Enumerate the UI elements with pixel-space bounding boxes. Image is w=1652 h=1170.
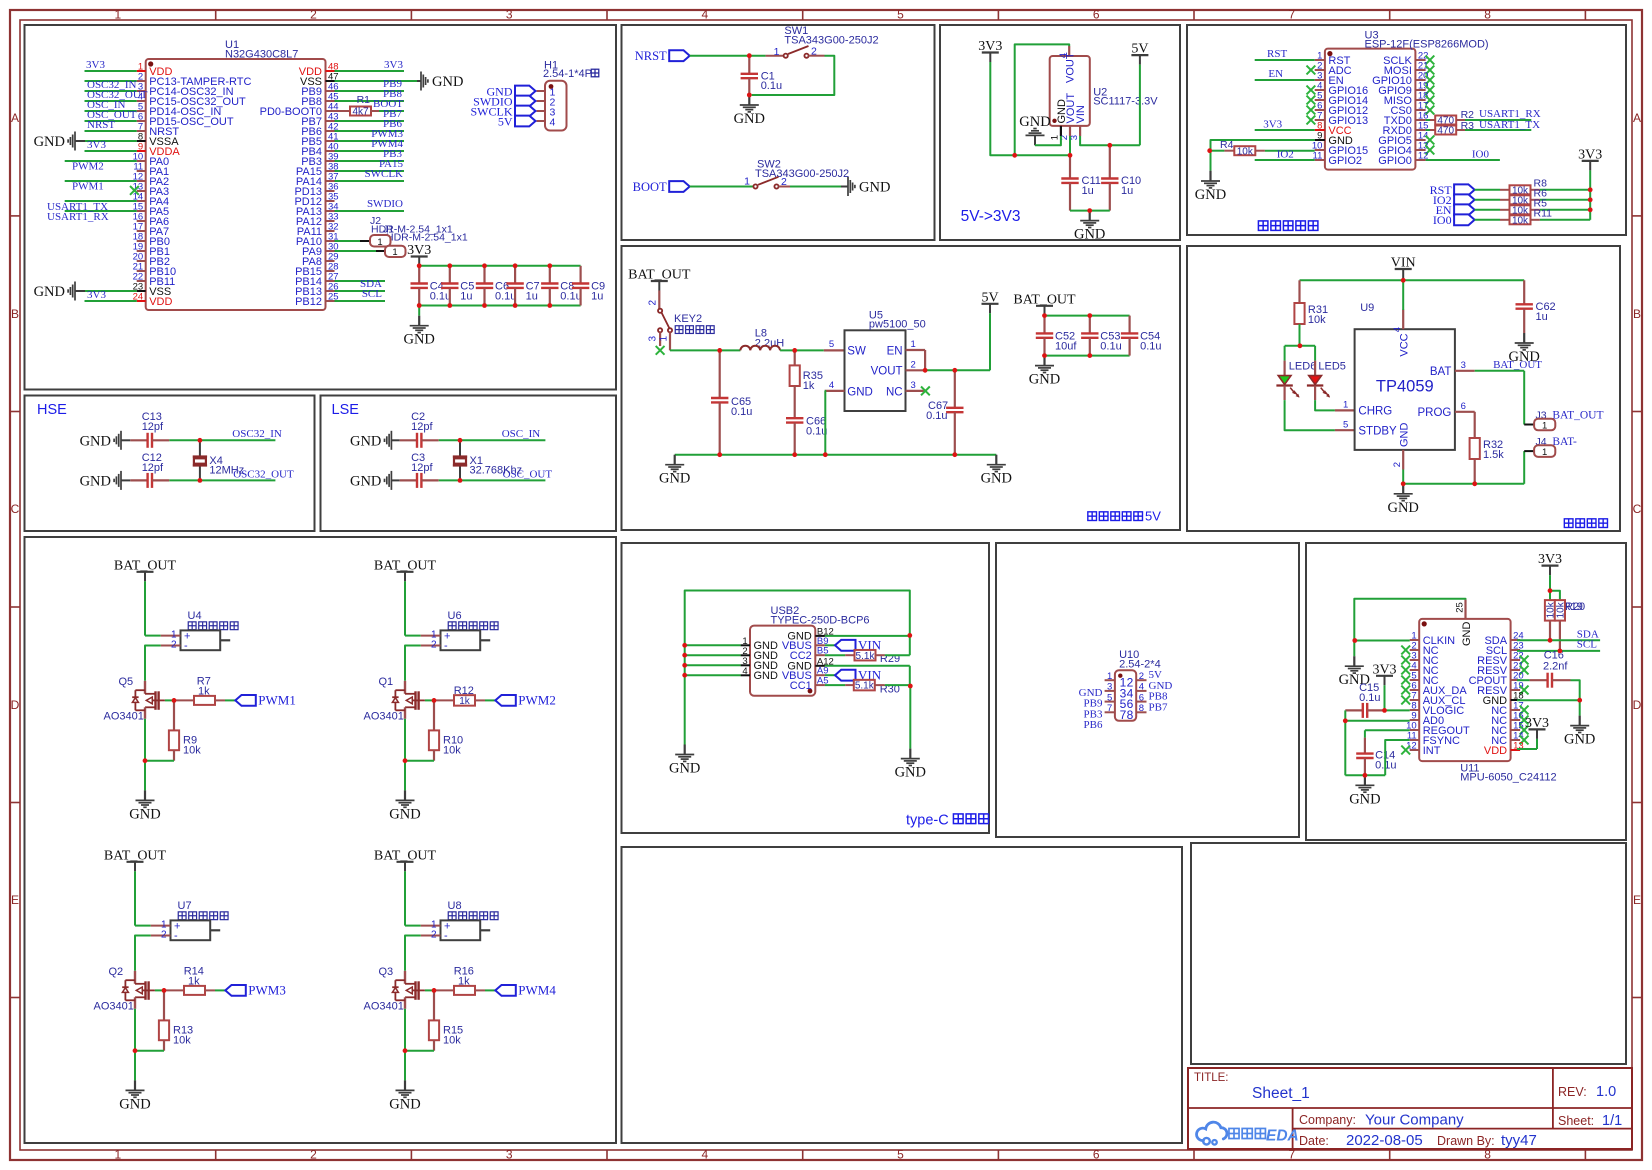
section label HSE — [37, 402, 67, 418]
svg-text:0.1u: 0.1u — [495, 291, 516, 303]
svg-text:0.1u: 0.1u — [430, 291, 451, 303]
svg-text:3: 3 — [911, 380, 916, 391]
svg-text:10uf: 10uf — [1055, 340, 1077, 352]
title block — [1188, 1068, 1632, 1149]
wire SCL — [1517, 650, 1600, 652]
junction VIN — [1401, 278, 1406, 283]
svg-text:GND: GND — [432, 74, 463, 90]
junction gate Q5 — [172, 698, 177, 703]
port flag 5V (H1 pin 4) — [498, 114, 536, 128]
svg-text:4: 4 — [1392, 327, 1403, 332]
ground (MPU right) — [1564, 700, 1595, 747]
wire KEY2 to L8 — [670, 349, 740, 351]
capacitor C6 0.1u — [476, 266, 517, 306]
svg-text:VOUT: VOUT — [1065, 52, 1077, 83]
svg-text:AO3401: AO3401 — [94, 1001, 134, 1013]
svg-text:NC: NC — [886, 386, 903, 398]
wire U2 VOUT pin down — [1069, 136, 1071, 155]
wire U2 GND pin loop — [1035, 136, 1061, 145]
junctions on 3V3 pullup rail — [1588, 187, 1593, 212]
net label 3V3 (U1 pin 1) — [86, 59, 105, 71]
connector U10 2.54-2*4 header — [1079, 649, 1173, 731]
svg-text:BOOT: BOOT — [633, 180, 667, 194]
svg-text:TP4059: TP4059 — [1376, 378, 1434, 396]
junction VOUT rail b — [1068, 153, 1073, 158]
svg-text:PWM1: PWM1 — [258, 693, 296, 708]
svg-text:2022-08-05: 2022-08-05 — [1346, 1132, 1423, 1149]
net label OSC32_OUT — [233, 469, 294, 481]
wire motor pin2 to Q2 — [135, 936, 151, 971]
ground below decoupling rail — [403, 306, 434, 348]
resistor R8 10k — [1475, 178, 1591, 197]
svg-text:PWM4: PWM4 — [518, 983, 556, 998]
svg-text:GND: GND — [80, 473, 111, 489]
svg-text:470: 470 — [1437, 126, 1454, 137]
junction U9 GND — [1401, 481, 1477, 486]
wire 3V3 to VOUT rail — [990, 62, 1070, 155]
net label USART1_RX — [47, 211, 109, 223]
svg-text:1: 1 — [1107, 671, 1112, 682]
svg-text:7: 7 — [1120, 708, 1127, 722]
wire BOOT to SW2 — [690, 186, 754, 188]
svg-text:4: 4 — [550, 117, 556, 129]
wire OSC32_IN — [200, 439, 276, 441]
svg-text:GND: GND — [669, 761, 700, 777]
svg-text:8: 8 — [1139, 703, 1144, 714]
transistor Q1 AO3401 — [364, 676, 425, 723]
svg-text:OSC_IN: OSC_IN — [502, 428, 541, 440]
resistor R3 470 — [1435, 120, 1531, 137]
wire B12 to rail — [825, 635, 910, 637]
ground (U4) — [129, 790, 160, 822]
junction AD0 — [1343, 718, 1348, 723]
ground below C1 — [734, 95, 765, 127]
charger U9 TP4059 — [1343, 302, 1475, 470]
port flag RST (pullup group) — [1430, 183, 1475, 197]
svg-text:4k7: 4k7 — [352, 107, 369, 118]
svg-text:10k: 10k — [1512, 215, 1529, 226]
svg-text:1: 1 — [911, 339, 916, 350]
net label PWM4 — [371, 138, 403, 150]
svg-text:GPIO0: GPIO0 — [1378, 155, 1412, 167]
wire REGOUT to C14 — [1365, 730, 1410, 737]
wire Q1 source to GND — [404, 719, 406, 791]
wire Q2 gate — [155, 989, 164, 991]
port flag BOOT — [633, 180, 690, 194]
svg-text:N32G430C8L7: N32G430C8L7 — [225, 49, 298, 61]
port flag SWDIO (H1 pin 2) — [473, 94, 535, 108]
capacitor C62 1u — [1516, 280, 1556, 333]
switch SW1 TSA343G00-250J2 — [774, 25, 879, 58]
port flag PWM1 — [235, 693, 296, 708]
svg-text:KEY2: KEY2 — [674, 313, 702, 325]
port flag PWM2 — [495, 693, 556, 708]
wire Q1 gate — [425, 699, 434, 701]
svg-text:10k: 10k — [183, 744, 201, 756]
net label BOOT — [373, 98, 403, 110]
svg-text:10k: 10k — [1237, 146, 1254, 157]
svg-text:2.2nf: 2.2nf — [1543, 661, 1568, 673]
junction C65 top — [717, 348, 722, 353]
wire OSC32_OUT — [200, 479, 276, 481]
svg-text:E: E — [11, 893, 19, 907]
junctions on B8 GND rail — [717, 452, 957, 457]
resistor R11 10k — [1475, 208, 1591, 227]
svg-text:INT: INT — [1423, 745, 1441, 757]
svg-text:7: 7 — [1107, 703, 1112, 714]
junction B12 — [907, 633, 912, 638]
net label SWDIO — [367, 198, 403, 210]
wire Q5 source to GND — [144, 719, 146, 791]
wire GND rail (B8) — [675, 454, 997, 456]
svg-text:GND: GND — [389, 806, 420, 822]
svg-text:12pf: 12pf — [142, 462, 164, 474]
net label USART1_TX — [47, 201, 108, 213]
svg-text:PWM2: PWM2 — [518, 693, 556, 708]
svg-text:6: 6 — [1461, 401, 1466, 412]
capacitor C65 0.1u — [711, 350, 752, 454]
svg-text:Drawn By:: Drawn By: — [1437, 1134, 1495, 1148]
svg-text:R11: R11 — [1534, 208, 1553, 220]
junction gate Q2 — [162, 988, 167, 993]
switch KEY2 (power switch) — [648, 291, 715, 351]
svg-text:-: - — [444, 640, 448, 652]
svg-text:CHRG: CHRG — [1358, 406, 1392, 418]
svg-text:GND: GND — [350, 433, 381, 449]
svg-text:8: 8 — [1484, 8, 1491, 22]
svg-text:12pf: 12pf — [142, 421, 164, 433]
wire CLKIN gnd drop — [1353, 641, 1355, 657]
power flag 3V3 (R19/R20) — [1538, 552, 1562, 575]
svg-text:GPIO2: GPIO2 — [1328, 155, 1362, 167]
ground below U9 — [1387, 484, 1418, 516]
junction (LSE) — [458, 438, 463, 483]
switch SW2 TSA343G00-250J2 — [744, 159, 849, 189]
section label type-C port — [906, 813, 988, 829]
motor U7 (coreless motor) — [151, 900, 228, 942]
power flag BAT_OUT (B8) — [628, 268, 691, 291]
resistor R9 10k — [145, 700, 201, 760]
capacitor C9 1u — [572, 266, 605, 306]
svg-text:RST: RST — [1267, 48, 1287, 60]
svg-text:12pf: 12pf — [411, 462, 433, 474]
wire 5V down to VOUT — [989, 313, 991, 370]
no-connect on U5 NC pin — [921, 387, 930, 396]
wire AD0 — [1345, 720, 1409, 722]
svg-text:STDBY: STDBY — [1358, 425, 1397, 437]
wires USB2 GND pins — [685, 645, 741, 744]
junction VIN rail (C10) — [1107, 143, 1112, 148]
no-connect on U1 pin 13 — [130, 186, 139, 195]
svg-text:HSE: HSE — [37, 402, 67, 418]
svg-text:IO0: IO0 — [1472, 149, 1490, 161]
wires to U1 left pins — [65, 71, 137, 301]
svg-text:SWDIO: SWDIO — [367, 198, 403, 210]
power flag BAT_OUT (U6) — [374, 558, 437, 581]
resistor R13 10k — [135, 990, 193, 1050]
wire OSC_OUT — [460, 479, 545, 481]
net label PB3 — [383, 148, 402, 160]
svg-text:-: - — [444, 930, 448, 942]
svg-text:2: 2 — [911, 359, 916, 370]
capacitor C13 12pf — [130, 411, 200, 448]
svg-text:PB12: PB12 — [295, 296, 322, 308]
capacitor C54 0.1u — [1121, 316, 1162, 356]
LED LED6 (green) — [1276, 361, 1316, 401]
svg-text:1u: 1u — [526, 291, 538, 303]
svg-text:1: 1 — [744, 176, 750, 188]
svg-text:5.1k: 5.1k — [856, 651, 876, 662]
net label SDA (MPU) — [1577, 629, 1599, 641]
svg-text:GND: GND — [403, 332, 434, 348]
svg-text:AO3401: AO3401 — [104, 711, 144, 723]
connector J3 BAT_OUT — [1524, 409, 1603, 431]
svg-text:1k: 1k — [803, 380, 815, 392]
svg-text:GND: GND — [1019, 114, 1050, 130]
port flag VIN (B9 pin) — [825, 638, 882, 653]
capacitor C1 0.1u — [741, 56, 783, 95]
svg-text:GND: GND — [659, 471, 690, 487]
port flag PWM3 — [225, 983, 286, 998]
junction C67 top — [952, 368, 957, 373]
wire U5 GND pin loop — [824, 391, 827, 455]
svg-text:GND: GND — [1029, 372, 1060, 388]
svg-text:7: 7 — [1289, 8, 1296, 22]
wire 3V3 (U3 pin8) — [1255, 129, 1315, 131]
junctions on decoupling rails — [417, 263, 552, 308]
capacitor C8 0.1u — [541, 266, 582, 306]
svg-text:PWM1: PWM1 — [72, 181, 104, 193]
power flag 3V3 (VLOGIC) — [1372, 662, 1396, 685]
svg-text:4: 4 — [829, 380, 834, 391]
svg-text:AO3401: AO3401 — [364, 711, 404, 723]
capacitor C10 1u — [1101, 145, 1141, 210]
svg-text:1u: 1u — [1536, 311, 1548, 323]
svg-text:NRST: NRST — [87, 119, 115, 131]
net label PB8 — [383, 88, 402, 100]
net label PWM2 — [72, 161, 104, 173]
svg-text:4: 4 — [702, 8, 709, 22]
LED LED5 (red) — [1307, 361, 1346, 401]
section label 5V->3V3 — [961, 208, 1021, 225]
svg-text:CC1: CC1 — [790, 680, 812, 692]
svg-text:GND: GND — [34, 134, 65, 150]
wire 3V3 pullup rail — [1589, 170, 1591, 219]
ground (U8) — [389, 1080, 420, 1112]
section label network connector — [1258, 221, 1317, 230]
svg-text:GND: GND — [119, 1096, 150, 1112]
wire Q5 gate — [165, 699, 174, 701]
svg-text:3: 3 — [1107, 682, 1112, 693]
svg-text:tyy47: tyy47 — [1501, 1132, 1537, 1149]
svg-text:GND: GND — [129, 806, 160, 822]
junction cap bank — [1042, 313, 1092, 358]
svg-text:1k: 1k — [459, 696, 471, 707]
svg-text:BAT-: BAT- — [1552, 436, 1577, 448]
junctions USB2 left — [682, 643, 687, 678]
svg-text:D: D — [1633, 698, 1642, 712]
capacitor C52 10uf — [1036, 316, 1078, 356]
svg-text:3V3: 3V3 — [87, 139, 106, 151]
capacitor C2 12pf — [400, 411, 460, 448]
junction GND rail (B6) — [1087, 208, 1092, 213]
power flag 3V3 (pullups) — [1578, 147, 1602, 170]
svg-text:2: 2 — [310, 1148, 317, 1162]
wire A12 to lower loop — [825, 666, 910, 686]
junction VOUT rail a — [1012, 153, 1017, 158]
port flag VIN (A9 pin) — [825, 668, 882, 683]
svg-text:GND: GND — [847, 386, 873, 398]
wire RST (U3 pin1) — [1255, 59, 1315, 61]
svg-text:5: 5 — [1107, 692, 1112, 703]
wire U3 GND loop — [1211, 140, 1315, 171]
wire 3V3 to R19/R20 — [1550, 575, 1560, 600]
svg-text:3V3: 3V3 — [1263, 119, 1282, 131]
net label SCL (MPU) — [1577, 639, 1597, 651]
ground flag at U2 GND pin — [1019, 114, 1050, 145]
svg-text:ESP-12F(ESP8266MOD): ESP-12F(ESP8266MOD) — [1365, 39, 1489, 51]
svg-text:REV:: REV: — [1558, 1085, 1587, 1099]
resistor R12 1k — [434, 685, 495, 707]
wire Q3 source to GND — [404, 1009, 406, 1081]
capacitor C4 0.1u — [411, 266, 452, 306]
junction CLKIN — [1352, 638, 1357, 643]
wire 5V down to VIN rail — [1139, 65, 1141, 146]
svg-text:1.5k: 1.5k — [1483, 449, 1504, 461]
svg-text:5V: 5V — [1145, 509, 1161, 524]
crystal X4 12MHz — [193, 440, 245, 480]
svg-text:5V->3V3: 5V->3V3 — [961, 208, 1021, 225]
motor U4 (coreless motor) — [161, 610, 238, 652]
wire OSC_IN — [460, 439, 545, 441]
svg-text:VDD: VDD — [149, 296, 172, 308]
net label OSC32_IN — [232, 428, 282, 440]
wire GPIO0 / IO0 — [1426, 159, 1500, 161]
junction R19 top — [1548, 588, 1553, 593]
power flag VIN (B9) — [1391, 256, 1416, 279]
svg-text:4: 4 — [702, 1148, 709, 1162]
wire EN tie to VOUT — [924, 350, 926, 370]
resistor R31 10k — [1294, 280, 1328, 346]
net label OSC_IN — [502, 428, 541, 440]
ground below C62 — [1508, 333, 1539, 365]
ground below R4 — [1195, 171, 1226, 203]
power flag BAT_OUT (U7) — [104, 848, 167, 871]
net label USART1_RX (ESP) — [1479, 108, 1541, 120]
svg-text:4: 4 — [742, 666, 747, 677]
ground (U6) — [389, 790, 420, 822]
svg-text:R20: R20 — [1565, 601, 1585, 613]
svg-text:1: 1 — [114, 8, 121, 22]
wire BAT to BAT_OUT — [1475, 371, 1525, 425]
svg-text:1: 1 — [774, 46, 780, 58]
svg-text:Date:: Date: — [1299, 1134, 1329, 1148]
net label USART1_TX (ESP) — [1479, 119, 1540, 131]
port flag PWM4 — [495, 983, 556, 998]
wire MPU bottom rail — [1345, 774, 1385, 776]
junction gate Q3 — [432, 988, 437, 993]
junction R35 top — [792, 348, 797, 353]
svg-text:3V3: 3V3 — [87, 289, 106, 301]
svg-text:1: 1 — [114, 1148, 121, 1162]
port flag IO0 (pullup group) — [1433, 213, 1475, 227]
wire BAT_OUT rail top — [1045, 314, 1130, 316]
net label OSC_OUT — [503, 469, 553, 481]
JLC EDA logo — [1197, 1122, 1299, 1144]
svg-text:2.54-1*4P: 2.54-1*4P — [543, 68, 592, 80]
svg-text:NRST: NRST — [635, 49, 667, 63]
svg-text:IO0: IO0 — [1433, 213, 1452, 227]
svg-text:6: 6 — [1139, 692, 1144, 703]
svg-text:OSC32_IN: OSC32_IN — [232, 428, 282, 440]
wire to GND (type-C right) — [909, 686, 911, 749]
junction SDA — [1548, 638, 1553, 643]
capacitor C7 1u — [506, 266, 539, 306]
capacitor C53 0.1u — [1081, 316, 1122, 356]
svg-text:MPU-6050_C24112: MPU-6050_C24112 — [1460, 772, 1556, 784]
power flag 3V3 (VDD) — [1525, 716, 1549, 739]
ground below C52 — [1029, 356, 1060, 388]
svg-text:2: 2 — [1139, 671, 1144, 682]
svg-text:2: 2 — [310, 8, 317, 22]
wire 3V3 rail / GND rail for C4-C9 — [419, 266, 580, 306]
junction VLOGIC — [1382, 708, 1387, 713]
svg-text:0.1u: 0.1u — [1140, 340, 1161, 352]
ground flag (HSE top) — [80, 431, 131, 450]
svg-text:1u: 1u — [1121, 185, 1133, 197]
capacitor C14 0.1u — [1356, 738, 1396, 776]
wire FSYNC down — [1385, 740, 1410, 775]
svg-text:GND: GND — [754, 670, 779, 682]
wire 3V3 to VDD — [1517, 739, 1537, 749]
svg-text:0.1u: 0.1u — [560, 291, 581, 303]
svg-text:A: A — [1633, 111, 1641, 125]
svg-text:10k: 10k — [443, 744, 461, 756]
wire BAT_OUT rail bottom — [1045, 355, 1130, 357]
svg-text:Sheet_1: Sheet_1 — [1252, 1085, 1310, 1102]
svg-text:E: E — [1633, 893, 1641, 907]
svg-text:5V: 5V — [498, 114, 513, 128]
svg-text:Q3: Q3 — [379, 966, 394, 978]
net label PWM1 — [72, 181, 104, 193]
wire U2 VIN rail — [1080, 136, 1140, 145]
motor U6 (coreless motor) — [421, 610, 498, 652]
junction R4/GND — [1207, 148, 1212, 153]
net label 3V3 (U3 pin8) — [1263, 119, 1282, 131]
svg-text:-: - — [174, 930, 178, 942]
port flag EN (pullup group) — [1436, 203, 1475, 217]
svg-text:PB7: PB7 — [1149, 701, 1168, 713]
svg-text:USART1_RX: USART1_RX — [47, 211, 109, 223]
wire CLKIN — [1354, 640, 1409, 642]
connector H1 2.54-1*4P — [537, 60, 599, 131]
svg-text:U7: U7 — [178, 900, 192, 912]
ground below C11/C10 — [1074, 211, 1105, 243]
svg-text:Sheet:: Sheet: — [1558, 1114, 1594, 1128]
svg-text:3V3: 3V3 — [384, 59, 403, 71]
svg-text:12pf: 12pf — [411, 421, 433, 433]
power flag 3V3 (B6) — [978, 39, 1002, 62]
port flag NRST — [635, 49, 690, 63]
wire VIN to U9 VCC — [1402, 280, 1404, 310]
svg-text:GND: GND — [981, 471, 1012, 487]
junction gate Q1 — [432, 698, 437, 703]
svg-text:GND: GND — [734, 111, 765, 127]
junction source Q3 — [403, 1048, 408, 1053]
capacitor C11 1u — [1061, 155, 1101, 210]
junction source Q2 — [133, 1048, 138, 1053]
junction source Q5 — [143, 758, 148, 763]
